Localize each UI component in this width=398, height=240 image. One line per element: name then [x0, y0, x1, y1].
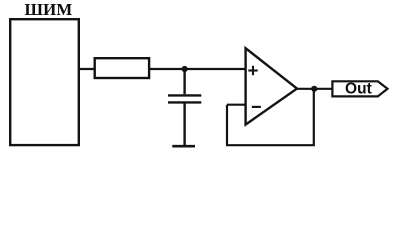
capacitor C1	[168, 95, 201, 102]
port flag Out	[332, 81, 387, 96]
node output junction	[311, 86, 317, 92]
minus sign (inverting input marker)	[252, 106, 261, 108]
wire capacitor bottom plate to ground	[183, 104, 185, 146]
block U1 PWM (ШИМ) source	[10, 19, 79, 145]
wire from PWM box to resistor and on to op-amp + input	[79, 68, 245, 70]
wire feedback loop from output to inverting input	[227, 89, 314, 145]
resistor R1	[95, 58, 149, 78]
ground bar	[172, 145, 195, 148]
svg-text:Out: Out	[345, 80, 372, 97]
svg-text:ШИМ: ШИМ	[24, 0, 72, 19]
wire inverting input stub	[227, 104, 245, 106]
wire op-amp output to Out port	[297, 88, 332, 90]
op-amp U2	[246, 48, 297, 124]
plus sign (non-inverting input marker)	[248, 66, 257, 75]
node junction of RC filter	[182, 66, 188, 72]
wire junction to capacitor top plate	[183, 69, 185, 94]
